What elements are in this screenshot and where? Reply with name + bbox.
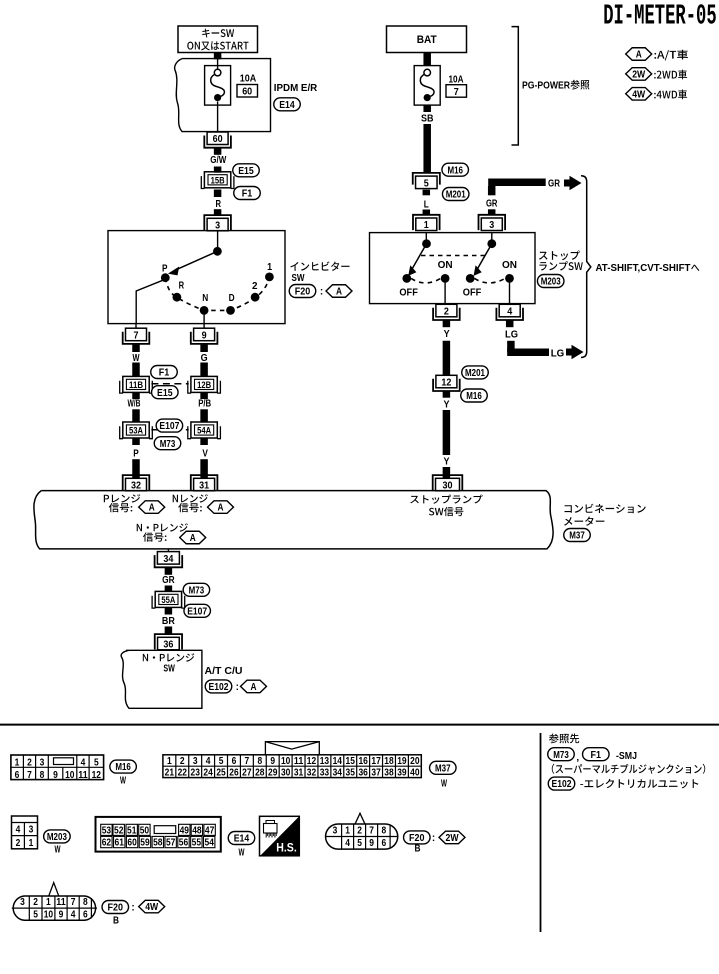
svg-text:H.S.: H.S. [276, 843, 297, 855]
svg-text:ON: ON [438, 260, 453, 271]
svg-text:W/B: W/B [128, 399, 141, 410]
svg-text:4W: 4W [632, 89, 645, 100]
svg-text:M73: M73 [189, 585, 205, 596]
svg-text:2: 2 [444, 306, 449, 318]
svg-text:8: 8 [83, 897, 88, 908]
svg-text:F1: F1 [242, 189, 253, 200]
svg-text:8: 8 [381, 826, 386, 837]
svg-text:9: 9 [270, 756, 275, 767]
svg-text:7: 7 [134, 329, 139, 341]
svg-text:59: 59 [140, 838, 150, 849]
svg-text:35: 35 [346, 768, 356, 779]
svg-text:ON: ON [502, 260, 517, 271]
svg-text:E102: E102 [209, 682, 229, 693]
svg-text:1: 1 [46, 897, 51, 908]
svg-text:M203: M203 [47, 832, 67, 843]
svg-text:4: 4 [81, 758, 86, 769]
svg-text:W: W [55, 844, 61, 855]
svg-text:39: 39 [397, 768, 407, 779]
svg-text:9: 9 [53, 770, 58, 781]
svg-text:7: 7 [369, 826, 374, 837]
svg-text:2: 2 [16, 838, 21, 849]
svg-text:11B: 11B [129, 380, 143, 391]
svg-text:1: 1 [267, 262, 272, 273]
svg-text:A: A [336, 287, 342, 298]
svg-text:53: 53 [102, 825, 112, 836]
svg-text:1: 1 [29, 838, 34, 849]
svg-text:M73: M73 [160, 439, 176, 450]
svg-text:SB: SB [421, 114, 434, 125]
svg-text:54A: 54A [197, 426, 211, 437]
svg-text:6: 6 [15, 770, 20, 781]
svg-text:34: 34 [163, 553, 173, 565]
svg-text:10: 10 [65, 770, 75, 781]
svg-text:R: R [179, 281, 185, 292]
svg-text:A: A [218, 503, 224, 514]
svg-text:15: 15 [346, 756, 356, 767]
svg-text:15B: 15B [211, 175, 225, 186]
svg-text:60: 60 [242, 86, 252, 98]
svg-text:53A: 53A [129, 426, 143, 437]
svg-text:E14: E14 [234, 834, 250, 845]
svg-text:4: 4 [16, 825, 21, 836]
svg-text:32: 32 [131, 480, 141, 492]
svg-text::: : [432, 833, 435, 844]
svg-text:3: 3 [40, 758, 45, 769]
svg-text:37: 37 [371, 768, 381, 779]
svg-text:AT-SHIFT,CVT-SHIFT: AT-SHIFT,CVT-SHIFT [596, 263, 691, 274]
svg-text:49: 49 [180, 825, 190, 836]
svg-text:26: 26 [229, 768, 239, 779]
svg-text:E102: E102 [552, 779, 572, 790]
svg-text:2W: 2W [632, 70, 645, 81]
svg-text:2: 2 [252, 281, 258, 292]
svg-text:4: 4 [71, 910, 76, 921]
svg-text:6: 6 [381, 838, 386, 849]
svg-text:1: 1 [15, 758, 20, 769]
svg-text:PG-POWER: PG-POWER [522, 80, 571, 91]
svg-text:B: B [415, 843, 421, 854]
svg-text:A: A [251, 682, 257, 693]
svg-text:5: 5 [94, 758, 99, 769]
svg-text:24: 24 [203, 768, 213, 779]
svg-text:4: 4 [507, 306, 512, 318]
svg-text:E15: E15 [238, 166, 254, 177]
svg-text:10: 10 [44, 910, 54, 921]
svg-text:OFF: OFF [399, 287, 418, 298]
svg-text:60: 60 [213, 133, 223, 145]
svg-text:4: 4 [206, 756, 211, 767]
svg-text:E14: E14 [279, 100, 295, 111]
svg-text:34: 34 [333, 768, 343, 779]
svg-text:1: 1 [424, 219, 429, 231]
svg-text:27: 27 [242, 768, 252, 779]
svg-text:10A: 10A [240, 73, 257, 85]
svg-text:30: 30 [281, 768, 291, 779]
svg-text:M37: M37 [569, 531, 585, 542]
svg-text:3: 3 [489, 219, 494, 231]
svg-text:G/W: G/W [210, 155, 226, 166]
svg-text:51: 51 [127, 825, 137, 836]
svg-text:M37: M37 [435, 763, 451, 774]
svg-text:E107: E107 [159, 421, 179, 432]
svg-text:-SMJ: -SMJ [616, 751, 637, 762]
svg-text:7: 7 [71, 897, 76, 908]
svg-text:23: 23 [191, 768, 201, 779]
svg-text:60: 60 [127, 838, 137, 849]
svg-text:5: 5 [219, 756, 224, 767]
svg-text:V: V [202, 448, 208, 459]
svg-text:17: 17 [371, 756, 381, 767]
svg-text:3: 3 [20, 897, 25, 908]
svg-text:1: 1 [167, 756, 172, 767]
svg-text:M201: M201 [446, 190, 466, 201]
svg-text:57: 57 [166, 838, 176, 849]
svg-text:,: , [576, 753, 579, 764]
svg-text:3: 3 [193, 756, 198, 767]
svg-text:38: 38 [384, 768, 394, 779]
svg-text:5: 5 [424, 177, 429, 189]
svg-text:M16: M16 [115, 762, 131, 773]
svg-text:47: 47 [205, 825, 215, 836]
svg-text:19: 19 [397, 756, 407, 767]
svg-text:P: P [133, 448, 139, 459]
svg-text:9: 9 [59, 910, 64, 921]
svg-text:LG: LG [505, 330, 518, 341]
svg-text:25: 25 [216, 768, 226, 779]
svg-text:GR: GR [486, 199, 498, 210]
svg-text:33: 33 [320, 768, 330, 779]
svg-text:14: 14 [333, 756, 343, 767]
svg-text:F1: F1 [591, 750, 602, 761]
svg-text:W: W [120, 775, 126, 786]
svg-text:N: N [202, 293, 208, 304]
svg-text:9: 9 [369, 838, 374, 849]
svg-text:6: 6 [232, 756, 237, 767]
svg-text:LG: LG [551, 349, 565, 360]
svg-text:W: W [441, 779, 447, 790]
svg-text:2: 2 [27, 758, 32, 769]
svg-text:3: 3 [333, 826, 338, 837]
svg-text:4: 4 [345, 838, 350, 849]
svg-text:3: 3 [29, 825, 34, 836]
svg-text:P: P [162, 264, 168, 275]
svg-text:12: 12 [92, 770, 102, 781]
svg-text:G: G [201, 353, 208, 364]
svg-text:GR: GR [548, 179, 561, 190]
svg-text:54: 54 [205, 838, 215, 849]
svg-text:62: 62 [102, 838, 112, 849]
svg-text:31: 31 [294, 768, 304, 779]
svg-text:3: 3 [215, 220, 220, 232]
svg-text:61: 61 [115, 838, 125, 849]
svg-text:BR: BR [162, 616, 176, 627]
svg-text:11: 11 [294, 756, 304, 767]
svg-text:Y: Y [444, 329, 450, 340]
svg-text:F20: F20 [108, 903, 124, 914]
svg-text:M16: M16 [447, 165, 463, 176]
svg-text:18: 18 [384, 756, 394, 767]
svg-text:IPDM E/R: IPDM E/R [274, 82, 318, 94]
svg-text:M203: M203 [541, 277, 561, 288]
svg-text:52: 52 [114, 825, 124, 836]
svg-text:9: 9 [202, 329, 207, 341]
svg-text:48: 48 [192, 825, 202, 836]
svg-text:2W: 2W [446, 833, 459, 844]
svg-text:29: 29 [268, 768, 278, 779]
svg-text:OFF: OFF [463, 287, 482, 298]
svg-text:R: R [215, 199, 221, 210]
svg-text:6: 6 [83, 910, 88, 921]
svg-text:22: 22 [178, 768, 188, 779]
svg-text:A/T C/U: A/T C/U [205, 666, 243, 677]
svg-text:28: 28 [255, 768, 265, 779]
svg-text:E107: E107 [187, 606, 207, 617]
svg-text:5: 5 [357, 838, 362, 849]
svg-text:40: 40 [410, 768, 420, 779]
svg-text:11: 11 [56, 897, 66, 908]
svg-text:11: 11 [78, 770, 88, 781]
svg-text:Y: Y [444, 399, 450, 410]
svg-text:7: 7 [454, 86, 459, 98]
svg-text:M16: M16 [466, 391, 482, 402]
svg-text:21: 21 [165, 768, 175, 779]
svg-text:M73: M73 [553, 750, 569, 761]
svg-text:32: 32 [307, 768, 317, 779]
svg-text:F20: F20 [295, 287, 311, 298]
svg-text:16: 16 [358, 756, 368, 767]
svg-text:B: B [113, 915, 119, 926]
svg-text:2: 2 [180, 756, 185, 767]
svg-text:20: 20 [410, 756, 420, 767]
svg-text:30: 30 [443, 480, 453, 492]
svg-text:56: 56 [179, 838, 189, 849]
svg-text::: : [131, 903, 134, 914]
svg-text:2: 2 [357, 826, 362, 837]
svg-text:1: 1 [345, 826, 350, 837]
svg-text:L: L [424, 199, 429, 210]
svg-text:12: 12 [441, 377, 451, 389]
svg-text:DI-METER-05: DI-METER-05 [603, 0, 717, 32]
svg-text:31: 31 [199, 480, 209, 492]
svg-text:SW: SW [163, 663, 175, 674]
svg-text:5: 5 [33, 910, 38, 921]
svg-text::: : [236, 682, 239, 693]
svg-text:8: 8 [40, 770, 45, 781]
svg-text::: : [320, 287, 323, 298]
svg-text:36: 36 [163, 639, 173, 651]
svg-text:12B: 12B [197, 380, 211, 391]
svg-text:P/B: P/B [198, 399, 211, 410]
svg-text:BAT: BAT [417, 34, 437, 46]
svg-text:13: 13 [320, 756, 330, 767]
svg-text:W: W [133, 353, 140, 364]
svg-text:2: 2 [33, 897, 38, 908]
svg-text:W: W [239, 847, 245, 858]
svg-text:55A: 55A [161, 595, 175, 606]
svg-text:7: 7 [245, 756, 250, 767]
svg-text:A: A [149, 503, 155, 514]
svg-text:A: A [636, 50, 642, 61]
svg-text:8: 8 [257, 756, 262, 767]
svg-text:SW: SW [292, 273, 305, 284]
svg-text:A: A [190, 533, 196, 544]
svg-text:10A: 10A [449, 73, 464, 85]
svg-text:F1: F1 [159, 368, 170, 379]
svg-text:7: 7 [27, 770, 32, 781]
svg-text:D: D [229, 293, 235, 304]
svg-text:58: 58 [153, 838, 163, 849]
svg-text:50: 50 [140, 825, 150, 836]
svg-text:36: 36 [358, 768, 368, 779]
svg-text:Y: Y [444, 457, 450, 468]
svg-text:10: 10 [281, 756, 291, 767]
svg-text:GR: GR [162, 575, 175, 586]
svg-text:M201: M201 [465, 368, 485, 379]
svg-text:12: 12 [307, 756, 317, 767]
svg-text:55: 55 [192, 838, 202, 849]
svg-text:E15: E15 [157, 388, 173, 399]
svg-text:4W: 4W [145, 902, 158, 913]
